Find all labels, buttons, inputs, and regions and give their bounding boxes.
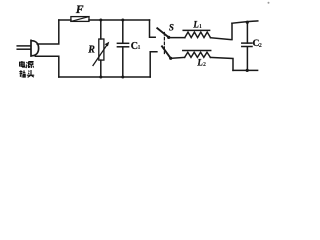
switch S top lever — [157, 28, 168, 37]
inductor L1 — [185, 32, 211, 38]
plug prong lower — [17, 48, 30, 50]
fuse F — [71, 17, 89, 22]
svg-text:R: R — [87, 45, 95, 56]
plug body — [31, 40, 39, 56]
resistor R (varistor) — [99, 39, 104, 60]
wire top rail corner down to switch — [150, 20, 156, 37]
node switch top contact — [167, 36, 170, 39]
svg-text:1: 1 — [199, 24, 202, 30]
wire L1 to right corner — [211, 23, 233, 39]
wire top rail left — [59, 19, 71, 21]
node C2 top — [246, 21, 249, 24]
wire R top — [100, 20, 102, 39]
svg-text:2: 2 — [203, 62, 206, 68]
capacitor C1 — [117, 42, 128, 44]
wire C2 top — [246, 22, 248, 43]
capacitor C2 — [242, 42, 252, 44]
switch S bottom lever — [162, 46, 171, 58]
node C1 bottom — [121, 76, 124, 79]
node R bottom — [99, 76, 102, 79]
speck top right — [268, 2, 270, 4]
switch link dashed — [163, 33, 165, 54]
wire plug bottom to corner — [35, 56, 59, 77]
wire C2 bottom — [246, 47, 248, 71]
wire top rail middle — [89, 19, 150, 21]
wire switch bottom stub — [150, 52, 157, 77]
label 电源插头 (drawn glyphs) — [19, 61, 34, 77]
wire bottom rail right — [233, 69, 258, 71]
node R top — [99, 19, 102, 22]
node switch bottom contact — [169, 57, 172, 60]
svg-text:F: F — [75, 4, 84, 16]
wire plug top to corner — [37, 20, 59, 44]
wire right corner to L2 — [210, 57, 233, 70]
plug prong upper — [17, 45, 30, 47]
wire C1 top — [122, 20, 124, 43]
core bar L2 — [183, 50, 211, 52]
插 — [19, 70, 25, 77]
svg-text:1: 1 — [138, 45, 141, 51]
源 — [26, 62, 34, 68]
电 — [20, 61, 25, 67]
node C2 bottom — [246, 69, 249, 72]
wire switch top to L1 — [169, 37, 185, 39]
wire L2 to switch bottom — [171, 56, 185, 59]
core bar L1 — [183, 29, 209, 31]
wire C1 bottom — [122, 47, 124, 77]
svg-text:2: 2 — [259, 42, 262, 49]
头 — [27, 70, 34, 77]
wire bottom rail — [59, 76, 150, 78]
inductor L2 — [185, 52, 211, 57]
node C1 top — [121, 19, 124, 22]
wire top rail right — [232, 21, 258, 23]
svg-text:S: S — [169, 23, 174, 33]
wire R bottom — [100, 60, 102, 77]
